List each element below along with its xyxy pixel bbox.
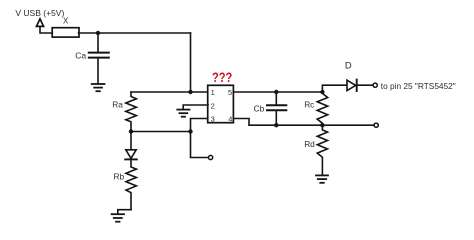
resistor Rc <box>317 92 328 125</box>
terminal open circle (to pin 25) <box>373 83 377 87</box>
junction Ra bottom <box>129 129 133 133</box>
svg-text:X: X <box>63 17 69 26</box>
wire Rc node up and right to diode <box>322 85 347 92</box>
svg-text:Ca: Ca <box>75 51 86 61</box>
resistor X <box>52 28 79 37</box>
wire X output to top-right corner <box>79 32 191 34</box>
svg-text:1: 1 <box>211 88 215 97</box>
wire pin 4 with jog <box>234 119 323 126</box>
wire node to Ra top <box>131 91 191 93</box>
svg-text:3: 3 <box>211 114 215 123</box>
wire mid node up to pin 3 <box>191 119 209 132</box>
svg-text:D: D <box>345 59 352 70</box>
capacitor Cb <box>275 92 277 104</box>
diode between Ra and Rb (pointing down) <box>130 132 132 150</box>
svg-text:???: ??? <box>212 70 232 85</box>
junction Rc bottom <box>320 123 324 127</box>
svg-text:Rd: Rd <box>304 139 315 149</box>
svg-text:4: 4 <box>228 114 232 123</box>
resistor Rd <box>317 125 327 175</box>
svg-text:5: 5 <box>228 88 232 97</box>
svg-text:to pin 25 "RTS5452": to pin 25 "RTS5452" <box>381 81 456 91</box>
resistor Ra <box>126 92 137 132</box>
junction at Ca tap <box>96 31 100 35</box>
wire down to pin1 junction <box>190 33 192 92</box>
wire Rb to ground jog <box>118 210 131 214</box>
wire pin 5 bus <box>234 91 323 93</box>
port V USB triangle <box>36 19 43 27</box>
wire to mid terminal <box>322 124 374 126</box>
svg-text:V USB (+5V): V USB (+5V) <box>15 8 64 18</box>
diode D (pointing right) <box>347 80 356 90</box>
wire Ca bottom lead <box>97 58 99 83</box>
ground at Ca <box>92 83 105 85</box>
wire pin 2 to ground <box>183 105 208 109</box>
ground at pin 2 <box>177 109 189 111</box>
IC U1 body <box>208 85 234 122</box>
svg-text:2: 2 <box>211 101 215 110</box>
wire node to pin 1 <box>191 91 209 93</box>
svg-text:Rc: Rc <box>304 100 314 110</box>
junction mid node <box>188 129 192 133</box>
svg-text:Ra: Ra <box>112 100 123 110</box>
wire Ra bottom to mid node <box>131 131 191 133</box>
svg-text:Cb: Cb <box>254 103 265 113</box>
resistor Rb <box>126 159 136 209</box>
wire mid node down to terminal <box>191 132 209 158</box>
junction Cb top <box>274 90 278 94</box>
terminal open circle (pin3 net) <box>209 155 213 159</box>
wire Ca top lead <box>97 33 99 52</box>
capacitor Ca <box>89 52 109 54</box>
wire port stub <box>40 26 52 33</box>
wire diode to terminal <box>357 84 373 86</box>
ground at Rb <box>112 213 124 215</box>
svg-text:Rb: Rb <box>114 172 125 182</box>
ground at Rd <box>316 174 328 176</box>
junction Rc top <box>320 90 324 94</box>
junction pin1 node <box>188 90 192 94</box>
terminal open circle (divider tap) <box>374 123 378 127</box>
junction Cb bottom <box>274 123 278 127</box>
